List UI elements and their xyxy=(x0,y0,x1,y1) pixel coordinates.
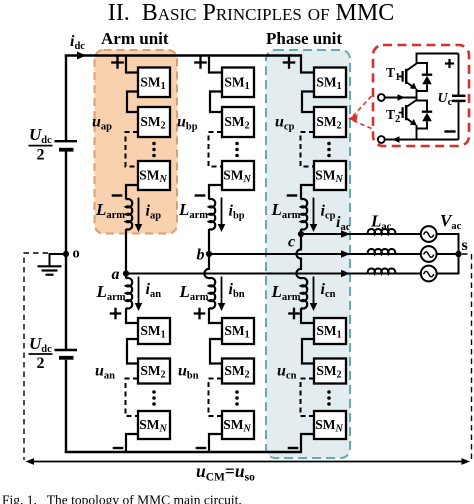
svg-text:Vac: Vac xyxy=(440,211,462,232)
svg-text:uan: uan xyxy=(95,363,115,382)
svg-text:uCM=uso: uCM=uso xyxy=(196,461,255,484)
svg-text:ibn: ibn xyxy=(229,281,245,300)
inductor Larm lower phase a xyxy=(126,278,132,309)
inductor Larm upper phase a xyxy=(126,199,132,230)
AC source Vac phase a xyxy=(421,266,437,282)
ground xyxy=(38,265,62,267)
dashed wire SM2-SMN upper phase a xyxy=(126,132,139,167)
wire AC line phase a xyxy=(126,273,421,275)
terminal circle bottom xyxy=(378,136,385,143)
node b xyxy=(206,251,212,257)
svg-text:a: a xyxy=(112,266,120,283)
ellipsis dots lower phase b xyxy=(235,390,239,394)
wire SM1-SM2 upper phase a xyxy=(127,92,138,113)
submodule SM2 lower phase b xyxy=(222,359,254,384)
submodule SM1 lower phase a xyxy=(138,318,170,344)
terminal minus lower phase b xyxy=(196,447,207,449)
wire left DC link lower xyxy=(65,360,67,453)
submodule SM2 lower phase c xyxy=(314,359,346,384)
svg-text:ian: ian xyxy=(146,281,162,300)
submodule SMN lower phase c xyxy=(314,411,346,439)
phase unit highlight region xyxy=(266,50,350,458)
svg-text:Udc: Udc xyxy=(29,334,52,355)
node s xyxy=(455,251,461,257)
wire upper arm input phase b xyxy=(209,55,222,73)
submodule detail callout box xyxy=(373,45,469,146)
dashed wire SM2-SMN upper phase b xyxy=(209,132,223,167)
current iXn arrow phase b xyxy=(221,277,223,305)
wire SMN to arm inductor upper phase c xyxy=(301,185,314,200)
wire to ground xyxy=(50,254,67,266)
diode D1 xyxy=(417,63,428,75)
wire bottom DC bus xyxy=(65,451,302,454)
wire input to midpoint xyxy=(385,97,417,99)
wire top rail xyxy=(417,53,459,55)
wire inductor to SM1 lower phase a xyxy=(126,308,138,323)
submodule SMN lower phase a xyxy=(138,411,170,439)
svg-text:idc: idc xyxy=(70,33,85,52)
submodule SMN upper phase c xyxy=(314,161,346,190)
AC source Vac phase c xyxy=(421,226,437,242)
terminal minus lower phase c xyxy=(288,447,299,449)
ellipsis dots lower phase a xyxy=(152,390,156,394)
submodule SMN upper phase b xyxy=(222,161,254,190)
svg-text:ubp: ubp xyxy=(177,114,198,133)
svg-text:Larm: Larm xyxy=(179,282,209,303)
submodule SM2 upper phase a xyxy=(138,107,170,137)
dashed wire SM2-SMN lower phase c xyxy=(301,379,315,417)
wire node to lower inductor with crossover hops phase c xyxy=(296,234,301,279)
current iXp arrow phase a xyxy=(138,198,140,226)
svg-text:ubn: ubn xyxy=(178,363,199,382)
wire SM1-SM2 upper phase c xyxy=(302,92,314,113)
svg-text:Larm: Larm xyxy=(96,282,126,303)
submodule SM2 upper phase b xyxy=(222,107,254,137)
inductor Lac phase c xyxy=(368,229,396,234)
terminal plus detail xyxy=(445,62,454,64)
svg-text:Phase unit: Phase unit xyxy=(266,29,342,48)
capacitor Uc xyxy=(458,54,460,96)
submodule SM2 lower phase a xyxy=(138,359,170,384)
svg-text:b: b xyxy=(197,247,205,264)
current arrow on AC line phase c xyxy=(341,230,350,238)
wire SMN to arm inductor upper phase b xyxy=(209,185,222,200)
submodule SMN lower phase b xyxy=(222,411,254,439)
wire top DC bus xyxy=(65,54,302,57)
current iXn arrow phase c xyxy=(313,277,315,305)
wire SMN to bottom bus phase a xyxy=(126,434,138,453)
svg-text:II. Basic Principles of MMC: II. Basic Principles of MMC xyxy=(108,0,394,26)
battery Udc/2 upper xyxy=(55,140,78,142)
submodule SM1 lower phase b xyxy=(222,318,254,344)
inductor Lac phase b xyxy=(368,249,396,254)
terminal plus lower phase c xyxy=(288,312,300,314)
terminal minus detail xyxy=(444,130,455,132)
svg-text:o: o xyxy=(73,246,80,262)
node + terminal upper arm phase c xyxy=(283,61,296,63)
submodule SM1 upper phase a xyxy=(138,68,170,98)
node c xyxy=(298,231,304,237)
svg-text:c: c xyxy=(288,234,295,251)
inductor Larm lower phase b xyxy=(209,278,215,309)
transistor T2 xyxy=(416,98,418,101)
current iXp arrow phase b xyxy=(221,198,223,226)
svg-text:ibp: ibp xyxy=(229,203,245,222)
terminal plus lower phase a xyxy=(110,312,122,314)
current iXp arrow phase c xyxy=(313,198,315,226)
wire node to lower inductor with crossover hops phase a xyxy=(125,274,127,279)
terminal minus lower phase a xyxy=(113,447,124,449)
ellipsis dots upper phase c xyxy=(327,142,331,146)
wire node to lower inductor with crossover hops phase b xyxy=(204,254,209,279)
wire upper arm input phase a xyxy=(126,55,138,73)
wire inductor to SM1 lower phase c xyxy=(301,308,314,323)
callout dashed arrows to SM2 xyxy=(353,96,372,116)
wire SMN to bottom bus phase c xyxy=(301,434,314,453)
dashed wire SM2-SMN lower phase a xyxy=(126,379,139,417)
svg-text:2: 2 xyxy=(37,355,45,372)
AC source Vac phase b xyxy=(421,246,437,262)
wire SMN to arm inductor upper phase a xyxy=(126,185,138,200)
submodule SM1 lower phase c xyxy=(314,318,346,344)
wire left DC link middle xyxy=(65,152,67,351)
wire bottom rail xyxy=(417,139,459,141)
node + terminal upper arm phase a xyxy=(111,61,124,63)
current iXn arrow phase a xyxy=(138,277,140,305)
node o xyxy=(63,251,69,257)
dashed measure line from node s xyxy=(462,254,472,459)
ellipsis dots upper phase a xyxy=(152,142,156,146)
wire inductor to node phase c xyxy=(300,229,302,234)
svg-text:Lac: Lac xyxy=(370,212,392,233)
uCM measurement double arrow xyxy=(29,461,467,463)
svg-text:Arm unit: Arm unit xyxy=(101,29,169,48)
wire SM1-SM2 lower phase c xyxy=(302,339,314,364)
wire left DC link upper xyxy=(65,55,67,142)
wire SMN to bottom bus phase b xyxy=(209,434,222,453)
wire AC line phase c xyxy=(301,233,421,235)
wire source to neutral phase a xyxy=(437,273,460,275)
wire upper arm input phase c xyxy=(301,55,314,73)
inductor Larm upper phase c xyxy=(301,199,307,230)
current arrow on AC line phase a xyxy=(341,270,350,278)
wire inductor to node phase b xyxy=(208,229,210,254)
dashed wire SM2-SMN lower phase b xyxy=(209,379,223,417)
submodule SM1 upper phase b xyxy=(222,68,254,98)
node + terminal upper arm phase b xyxy=(194,61,207,63)
inductor Lac phase a xyxy=(368,268,396,273)
wire SM1-SM2 upper phase b xyxy=(210,92,222,113)
wire AC line phase b xyxy=(209,253,421,255)
wire inductor to node phase a xyxy=(125,229,127,274)
arm unit highlight region xyxy=(95,50,178,234)
ellipsis dots upper phase b xyxy=(235,142,239,146)
battery Udc/2 lower xyxy=(55,349,78,351)
ellipsis dots lower phase c xyxy=(327,390,331,394)
terminal minus upper phase a xyxy=(112,194,123,196)
inductor Larm upper phase b xyxy=(209,199,215,230)
submodule SMN upper phase a xyxy=(138,161,170,190)
svg-text:Larm: Larm xyxy=(178,200,208,221)
terminal minus upper phase c xyxy=(287,194,298,196)
dashed measure line from node o xyxy=(24,253,48,460)
wire source to neutral phase b xyxy=(437,253,460,255)
submodule SM1 upper phase c xyxy=(314,68,346,98)
svg-text:Fig. 1. The topology of MMC: Fig. 1. The topology of MMC main circuit… xyxy=(2,493,242,504)
inductor Larm lower phase c xyxy=(301,278,307,309)
wire SM1-SM2 lower phase b xyxy=(210,339,222,364)
wire inductor to SM1 lower phase b xyxy=(209,308,222,323)
svg-text:s: s xyxy=(462,237,468,254)
terminal minus upper phase b xyxy=(195,194,206,196)
svg-text:2: 2 xyxy=(37,147,45,164)
svg-text:Udc: Udc xyxy=(29,125,52,146)
current arrow on AC line phase b xyxy=(341,250,350,258)
current idc arrow xyxy=(77,52,86,60)
wire source to neutral phase c xyxy=(437,233,460,235)
wire neutral bus xyxy=(458,234,460,274)
node a xyxy=(123,270,129,276)
diode D2 xyxy=(417,101,428,112)
submodule SM2 upper phase c xyxy=(314,107,346,137)
dashed wire SM2-SMN upper phase c xyxy=(301,132,315,167)
terminal circle top xyxy=(378,94,385,101)
transistor T1 xyxy=(416,53,418,64)
wire SM1-SM2 lower phase a xyxy=(127,339,138,364)
terminal plus lower phase b xyxy=(194,312,206,314)
